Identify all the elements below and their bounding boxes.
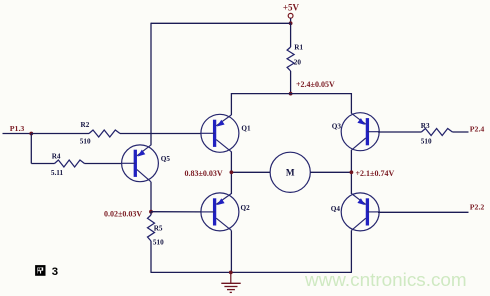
svg-text:Q4: Q4 — [331, 205, 341, 213]
svg-text:+2.4±0.05V: +2.4±0.05V — [296, 80, 335, 89]
wire top rail to left — [151, 22, 291, 24]
wire Q2 emitter up — [230, 172, 232, 194]
svg-text:P2.2: P2.2 — [470, 203, 485, 212]
transistor Q3 — [341, 113, 379, 151]
svg-text:R2: R2 — [81, 121, 90, 129]
wire Q4 collector down — [350, 231, 352, 273]
wire +5V stub — [290, 18, 292, 23]
wire left drop lower (Q5 collector to R5 junction) — [150, 182, 152, 212]
transistor Q4 — [341, 193, 379, 231]
wire Q3 emitter up — [350, 93, 352, 114]
svg-text:5.11: 5.11 — [51, 169, 64, 177]
svg-text:R4: R4 — [52, 152, 61, 160]
wire motor left — [231, 171, 270, 173]
svg-text:M: M — [286, 168, 295, 178]
svg-text:Q5: Q5 — [161, 155, 171, 163]
node R5 top junction — [149, 210, 153, 214]
node motor right junction — [350, 170, 354, 174]
+5V terminal circle — [288, 13, 293, 18]
resistor R5 — [150, 212, 152, 215]
wire P1.3 down branch — [30, 134, 32, 164]
node P1.3 junction — [29, 132, 33, 136]
ground — [221, 272, 240, 292]
svg-text:R3: R3 — [421, 122, 430, 130]
transistor Q2 — [201, 193, 239, 231]
node ground junction — [229, 271, 233, 275]
svg-text:3: 3 — [52, 266, 58, 278]
svg-text:P1.3: P1.3 — [10, 124, 25, 133]
svg-text:R1: R1 — [294, 43, 303, 51]
wire Q1 emitter up — [230, 93, 232, 115]
wire left drop upper — [150, 23, 152, 146]
transistor Q5 — [122, 145, 159, 182]
figure caption 图 3 — [35, 265, 45, 276]
node +5V junction — [289, 21, 293, 25]
svg-text:510: 510 — [80, 137, 91, 145]
wire Q3 collector down — [350, 150, 352, 172]
motor M circle — [270, 152, 310, 192]
svg-text:Q3: Q3 — [332, 122, 342, 130]
wire bridge top rail — [231, 93, 351, 95]
resistor R1 — [290, 23, 292, 47]
svg-text:0.83±0.03V: 0.83±0.03V — [185, 169, 223, 178]
wire Q1 collector down — [230, 152, 232, 173]
wire Q2 collector down — [230, 231, 232, 273]
svg-text:510: 510 — [421, 137, 432, 145]
svg-text:+2.1±0.74V: +2.1±0.74V — [356, 169, 395, 178]
wire motor right — [310, 171, 351, 173]
svg-text:+5V: +5V — [283, 3, 300, 13]
svg-text:www.cntronics.com: www.cntronics.com — [304, 270, 467, 291]
svg-text:510: 510 — [153, 239, 164, 247]
svg-text:Q1: Q1 — [241, 125, 251, 133]
wire Q2 base — [151, 211, 201, 213]
svg-text:Q2: Q2 — [241, 204, 251, 212]
wire P1.3 lead — [3, 133, 32, 135]
resistor R2 — [31, 133, 89, 135]
node R1 bottom junction — [289, 92, 293, 96]
svg-text:0.02±0.03V: 0.02±0.03V — [104, 209, 142, 218]
wire Q4 emitter up — [350, 172, 352, 194]
wire bottom rail — [151, 271, 352, 273]
wire Q4 base to P2.2 — [378, 211, 469, 213]
transistor Q1 — [201, 114, 239, 152]
svg-text:20: 20 — [294, 58, 302, 66]
resistor R3 — [378, 131, 421, 133]
svg-text:P2.4: P2.4 — [470, 124, 485, 133]
svg-text:R5: R5 — [154, 224, 163, 232]
resistor R4 — [31, 163, 54, 165]
node motor left junction — [230, 170, 234, 174]
